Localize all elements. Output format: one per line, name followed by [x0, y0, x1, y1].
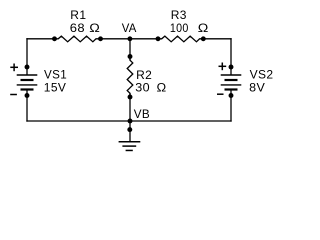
polarity minus VS2: [217, 93, 224, 95]
svg-text:30: 30: [135, 81, 150, 95]
wire top-left segment: [26, 38, 54, 40]
polarity plus VS1: [10, 64, 18, 72]
svg-text:Ω: Ω: [157, 81, 167, 95]
junction R2 bottom: [128, 95, 133, 100]
wire right vertical upper: [230, 38, 232, 75]
battery VS2 plate long bottom: [221, 84, 242, 86]
svg-text:R3: R3: [171, 8, 187, 22]
resistor R2: [127, 57, 133, 98]
svg-text:Ω: Ω: [198, 21, 209, 35]
polarity plus VS2: [219, 63, 227, 71]
wire VA segment between R1 and R3: [101, 38, 159, 40]
junction R3 left: [156, 36, 161, 41]
junction R1 right: [98, 36, 103, 41]
svg-text:15V: 15V: [44, 80, 66, 94]
wire top-right segment: [203, 38, 231, 40]
svg-text:VA: VA: [122, 21, 137, 35]
svg-text:68: 68: [70, 21, 85, 35]
resistor R1: [55, 36, 101, 42]
svg-text:R1: R1: [70, 8, 86, 22]
battery VS1 plate long top: [17, 74, 38, 76]
svg-text:100: 100: [170, 21, 189, 35]
junction VS2 top: [229, 65, 234, 70]
wire ground stem: [129, 121, 131, 142]
wire middle branch upper: [129, 39, 131, 60]
svg-text:Ω: Ω: [89, 21, 100, 35]
battery VS1 plate short upper: [21, 79, 34, 81]
junction R1 left: [52, 36, 57, 41]
battery VS2 plate long top: [221, 74, 242, 76]
wire left vertical upper: [26, 38, 28, 75]
polarity minus VS1: [10, 94, 17, 96]
svg-text:VS2: VS2: [250, 67, 274, 81]
wire right vertical lower: [230, 90, 232, 122]
junction VS2 bottom: [229, 93, 234, 98]
svg-text:8V: 8V: [249, 80, 265, 94]
resistor R3: [158, 36, 203, 42]
ground: [119, 142, 141, 151]
node VB junction: [128, 119, 133, 124]
node VA junction: [127, 36, 132, 41]
battery VS2 plate short upper: [225, 79, 238, 81]
junction ground pin: [127, 127, 132, 132]
junction VS1 top: [25, 65, 30, 70]
junction R3 right: [201, 36, 206, 41]
junction R2 top: [128, 54, 133, 59]
battery VS2 plate short lower: [225, 88, 238, 90]
junction VS1 bottom: [25, 93, 30, 98]
battery VS1 plate long bottom: [17, 84, 38, 86]
svg-text:VB: VB: [134, 107, 150, 121]
battery VS1 plate short lower: [21, 88, 34, 90]
wire left vertical lower: [26, 90, 28, 122]
svg-text:R2: R2: [136, 68, 152, 82]
wire bottom: [26, 120, 231, 122]
wire middle branch lower: [129, 93, 131, 121]
svg-text:VS1: VS1: [44, 67, 67, 81]
